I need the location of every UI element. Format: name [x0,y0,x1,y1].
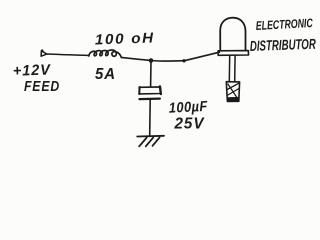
wire from junction to switch point [151,60,184,63]
svg-text:DISTRIBUTOR: DISTRIBUTOR [250,37,317,55]
wire from inductor to junction node [121,57,150,60]
distributor dome (cap body) [220,18,245,51]
wire junction down to capacitor [150,61,152,87]
wire capacitor to ground [149,100,152,136]
wire from arrow to inductor [47,54,89,55]
distributor flange base [218,51,248,56]
inductor L 100uH 5A [89,50,122,57]
connector arrow +12V feed input [41,49,47,56]
junction node dot [149,58,154,63]
capacitor bottom plate [140,97,160,100]
angled wire to distributor [184,52,219,61]
paper background [0,0,320,164]
hatched shaft block [226,82,239,102]
distributor legs [228,55,230,81]
svg-text:100µF: 100µF [168,99,208,117]
ground symbol [137,136,164,147]
svg-text:5A: 5A [95,66,116,83]
small node dot [182,59,185,62]
capacitor C 100uF top plate (box) [139,87,161,95]
svg-text:FEED: FEED [24,78,60,95]
svg-text:25V: 25V [174,115,206,132]
svg-text:100 oH: 100 oH [95,30,156,48]
